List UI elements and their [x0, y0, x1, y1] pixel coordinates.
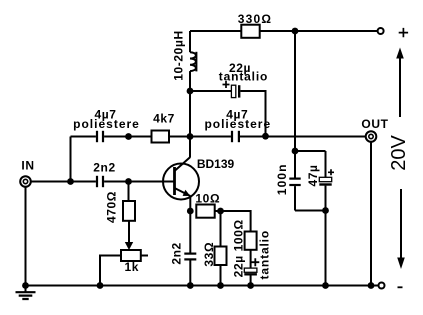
node 47µ ground: [322, 282, 329, 289]
svg-text:IN: IN: [21, 159, 34, 173]
wire 22µ to node: [240, 91, 265, 136]
wire to 100Ω branch: [221, 211, 251, 232]
capacitor 47µ: [325, 151, 327, 177]
svg-text:1k: 1k: [125, 260, 140, 274]
wire to OUT: [240, 136, 366, 138]
svg-text:47µ: 47µ: [306, 164, 320, 186]
wire 4µ7 to 4k7: [104, 136, 151, 138]
wire arrow to pot: [128, 221, 130, 243]
node 4µ7/4k7: [125, 133, 132, 140]
node supply decoupling: [292, 148, 299, 155]
svg-text:470Ω: 470Ω: [105, 191, 119, 223]
label - sign: [398, 286, 403, 288]
label + sign: [399, 28, 408, 37]
terminal IN: [20, 176, 31, 187]
node 33Ω ground: [217, 282, 224, 289]
svg-text:tantalio: tantalio: [257, 230, 271, 279]
svg-text:100n: 100n: [275, 163, 289, 195]
node top rail / supply: [292, 28, 299, 35]
capacitor 4µ7 poliestere right: [231, 131, 233, 142]
svg-text:tantalio: tantalio: [219, 70, 268, 84]
wire supply rail x295: [294, 31, 296, 151]
wire top rail: [190, 30, 378, 32]
arrow down 20V: [400, 189, 402, 258]
arrow up 20V: [399, 56, 401, 117]
svg-text:poliestere: poliestere: [73, 117, 140, 131]
svg-text:poliestere: poliestere: [204, 117, 271, 131]
node dots: [22, 28, 374, 289]
wire 47µ to ground: [325, 211, 327, 286]
resistor 330Ω box: [241, 25, 259, 38]
wire IN ground drop: [25, 187, 27, 286]
capacitor 4µ7 poliestere left: [96, 131, 98, 142]
potentiometer 1k: [121, 250, 141, 261]
node input split: [67, 178, 74, 185]
wire emitter row: [215, 210, 221, 212]
wire decoupling top: [295, 150, 326, 152]
node 22µ ground: [247, 282, 254, 289]
wire left input branch: [70, 137, 72, 182]
resistor 470Ω: [128, 182, 130, 202]
svg-text:330Ω: 330Ω: [238, 12, 272, 26]
svg-text:20V: 20V: [388, 135, 410, 171]
node out ground: [368, 282, 375, 289]
wire OUT drop: [370, 142, 372, 286]
svg-text:10-20µH: 10-20µH: [172, 30, 186, 80]
node emitter: [187, 208, 194, 215]
svg-text:2n2: 2n2: [93, 161, 115, 175]
capacitor 22µ tantalio emitter: [244, 268, 257, 272]
terminal + positive: [378, 28, 384, 34]
wire pot right stub: [141, 255, 148, 257]
node 2n2 ground: [187, 282, 194, 289]
svg-text:2n2: 2n2: [170, 242, 184, 264]
wire IN row: [31, 181, 96, 183]
svg-text:22µ 100Ω: 22µ 100Ω: [231, 219, 245, 277]
node pot ground: [97, 282, 104, 289]
node decoupling bottom: [322, 207, 329, 214]
wire 2n2 to base: [104, 181, 174, 183]
wire collector column: [189, 71, 191, 157]
inductor core bar: [195, 52, 197, 72]
svg-text:10Ω: 10Ω: [195, 191, 220, 205]
svg-text:4k7: 4k7: [153, 112, 175, 126]
svg-text:BD139: BD139: [197, 157, 235, 171]
node 10Ω right: [217, 208, 224, 215]
resistor 100Ω: [245, 232, 257, 250]
resistor 10Ω: [196, 205, 214, 218]
wire mid row y136.5: [71, 136, 96, 138]
resistor 4k7 box: [152, 131, 170, 143]
ground: [25, 286, 27, 293]
node ground corner: [22, 282, 29, 289]
node inductor / 22µ: [187, 88, 194, 95]
capacitor 22µ tantalio top: [190, 90, 231, 92]
wire decoupling bottom: [295, 210, 326, 212]
node 4µ7 right / out: [262, 133, 269, 140]
capacitor 2n2 emitter: [184, 253, 196, 255]
terminal - negative: [379, 283, 385, 289]
capacitor 100n: [294, 151, 296, 178]
node base: [125, 178, 132, 185]
terminal OUT: [366, 131, 377, 142]
transistor Q1 BD139: [163, 164, 199, 200]
wire bottom rail: [26, 285, 379, 287]
wire emitter column: [189, 196, 191, 253]
inductor L1 10-20µH: [189, 31, 191, 52]
capacitor 2n2 input: [96, 176, 98, 187]
svg-text:OUT: OUT: [361, 117, 388, 131]
svg-text:33Ω: 33Ω: [202, 242, 216, 267]
node collector: [187, 133, 194, 140]
resistor 33Ω: [220, 211, 222, 247]
wire 4k7 to collector node: [169, 136, 231, 138]
